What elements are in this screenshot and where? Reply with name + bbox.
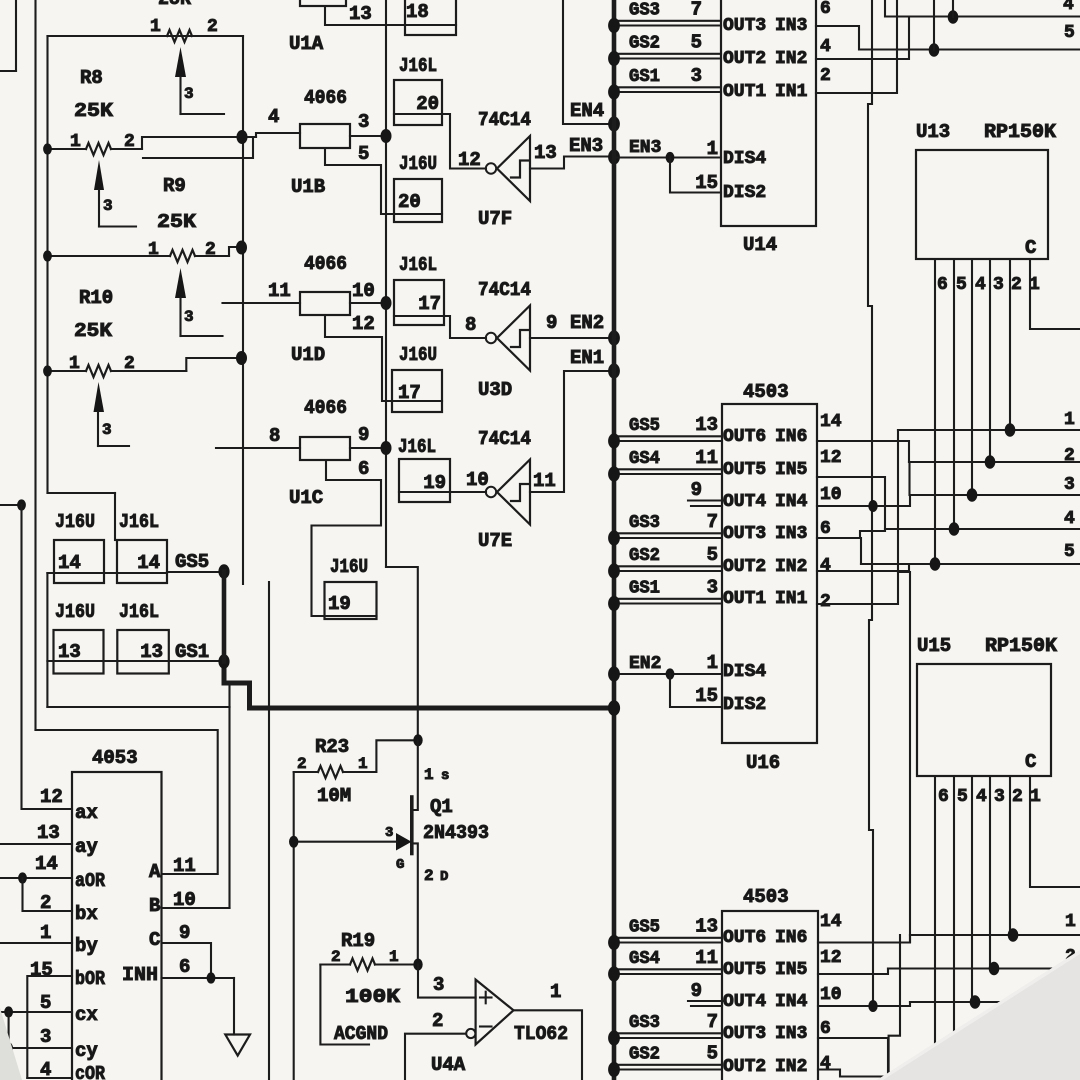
wire J16L19 to U7E input <box>450 491 486 493</box>
jumper J16L 13 <box>104 601 169 674</box>
svg-text:4: 4 <box>1063 0 1074 15</box>
wire 4053 INH <box>162 977 235 979</box>
wire pin9 stub underline bottom <box>688 1000 724 1002</box>
junction R19/drain node <box>413 959 422 971</box>
wire U3D output to EN2 bus <box>530 337 614 339</box>
svg-text:C: C <box>149 929 160 951</box>
svg-text:4: 4 <box>976 787 987 807</box>
potentiometer R8 25K <box>48 67 143 227</box>
wire 4053 aOR <box>0 877 72 879</box>
svg-text:12: 12 <box>820 948 842 968</box>
svg-text:9: 9 <box>691 479 702 501</box>
svg-text:IN2: IN2 <box>775 1057 807 1077</box>
svg-text:9: 9 <box>179 922 190 944</box>
svg-text:6: 6 <box>937 275 948 295</box>
wire EN2 to DIS4 <box>614 673 722 675</box>
svg-text:OUT3: OUT3 <box>723 1024 766 1044</box>
svg-text:1: 1 <box>389 948 399 966</box>
svg-text:13: 13 <box>695 414 718 436</box>
4066 switch U1B <box>291 87 350 198</box>
svg-text:GS5: GS5 <box>629 416 660 436</box>
svg-text:1: 1 <box>40 922 51 944</box>
svg-text:74C14: 74C14 <box>478 428 531 450</box>
junction Q1 source node <box>413 734 422 746</box>
svg-text:C: C <box>1025 237 1036 259</box>
wire 4053 by <box>0 942 72 944</box>
svg-text:DIS2: DIS2 <box>723 695 766 715</box>
wire rail5 mid <box>861 563 1080 565</box>
wire branch to DIS2 <box>670 158 721 193</box>
svg-text:2: 2 <box>424 867 434 885</box>
svg-text:4: 4 <box>1064 509 1075 529</box>
svg-text:EN2: EN2 <box>570 312 604 334</box>
ground symbol <box>225 1035 250 1056</box>
svg-text:OUT5: OUT5 <box>723 960 766 980</box>
junction cy <box>4 1042 13 1053</box>
wire rail1 jog down to bottom group <box>898 572 910 942</box>
svg-text:13: 13 <box>58 641 81 663</box>
wire pin9 stub underline <box>688 499 724 501</box>
svg-text:12: 12 <box>820 448 842 468</box>
junction EN2/DIS2 branch <box>666 668 675 679</box>
wire IN5 bottom <box>818 969 888 975</box>
svg-text:7: 7 <box>691 0 702 21</box>
svg-text:GS2: GS2 <box>629 546 660 566</box>
svg-text:IN4: IN4 <box>775 492 808 512</box>
wire U1C pin9 to bus <box>350 447 386 449</box>
svg-text:12: 12 <box>40 786 63 808</box>
svg-text:6: 6 <box>820 0 831 19</box>
junction EN4 bus <box>608 116 620 131</box>
junction cx <box>4 1006 13 1017</box>
wire into U1C pin8 <box>216 447 300 449</box>
svg-text:J16U: J16U <box>399 344 437 366</box>
svg-text:IN3: IN3 <box>775 16 807 36</box>
svg-text:10: 10 <box>352 280 375 302</box>
junction rail1 bottom <box>1008 928 1019 942</box>
net stub ACGND <box>320 965 388 1046</box>
svg-text:13: 13 <box>349 3 372 25</box>
wire INH to ground <box>233 978 235 1035</box>
svg-text:11: 11 <box>173 855 196 877</box>
svg-text:J16L: J16L <box>398 436 436 458</box>
wire feed up to thick bus <box>228 685 230 707</box>
wire rail3 bottom <box>910 1001 1080 1003</box>
svg-text:U3D: U3D <box>478 379 512 401</box>
svg-text:RP150K: RP150K <box>985 635 1058 657</box>
svg-text:J16U: J16U <box>55 511 95 533</box>
svg-text:4: 4 <box>975 275 986 295</box>
junction EN3/DIS2 branch <box>666 152 675 163</box>
svg-text:B: B <box>149 895 160 917</box>
wire IN3 U14 to rail <box>816 26 1080 50</box>
svg-text:EN1: EN1 <box>570 347 604 369</box>
junction R10 net / right rail <box>236 351 247 365</box>
svg-text:OUT4: OUT4 <box>723 492 766 512</box>
svg-text:7: 7 <box>707 511 718 533</box>
svg-text:14: 14 <box>820 412 842 432</box>
svg-text:13: 13 <box>140 641 163 663</box>
wire rail1-left drop bottom <box>889 935 900 1080</box>
svg-text:GS3: GS3 <box>629 1 660 21</box>
wire U13 pin2 <box>1009 259 1011 430</box>
wire IN3 U16 <box>817 538 861 564</box>
svg-text:4503: 4503 <box>743 886 789 908</box>
wire cx-cy link <box>8 1012 10 1048</box>
wire R9 pin2 step to rail <box>229 247 243 256</box>
svg-text:EN4: EN4 <box>570 100 604 122</box>
svg-text:1: 1 <box>1030 787 1041 807</box>
junction INH <box>207 972 216 983</box>
wire into U1D pin11 <box>223 302 301 304</box>
svg-text:1: 1 <box>1064 410 1075 430</box>
svg-text:10: 10 <box>820 485 842 505</box>
op-amp U4A TL062 <box>431 980 568 1076</box>
svg-text:TLO62: TLO62 <box>514 1023 568 1045</box>
wire 4053 ay <box>0 843 72 845</box>
heavy bus vertical net <box>612 0 617 1080</box>
svg-text:4066: 4066 <box>304 397 347 419</box>
svg-text:3: 3 <box>184 85 194 103</box>
wire 4053 cx <box>0 1011 72 1013</box>
svg-text:4: 4 <box>820 556 831 576</box>
svg-text:GS4: GS4 <box>629 949 660 969</box>
svg-text:IN1: IN1 <box>775 82 808 102</box>
wire 4066 bus jog to Q1 <box>386 567 418 740</box>
wire 4053 B to bus <box>162 907 230 909</box>
wire U13 pin1 to right edge <box>1030 259 1080 329</box>
wire IN2 U16 <box>817 564 909 571</box>
jumper J16L 19 <box>398 436 450 502</box>
svg-text:3: 3 <box>994 787 1005 807</box>
svg-text:4: 4 <box>40 1059 51 1080</box>
svg-text:U1D: U1D <box>291 344 325 366</box>
svg-text:2: 2 <box>297 755 307 773</box>
svg-text:6: 6 <box>938 787 949 807</box>
svg-text:10M: 10M <box>317 785 351 807</box>
wire branch to DIS2 U16 <box>670 674 722 707</box>
svg-text:GS3: GS3 <box>629 1013 660 1033</box>
svg-text:25K: 25K <box>74 100 114 122</box>
svg-text:U1C: U1C <box>289 487 323 509</box>
junction U1C pin9 bus <box>381 441 392 455</box>
wire IN6 U16 <box>817 441 909 462</box>
svg-text:9: 9 <box>546 312 557 334</box>
svg-text:4: 4 <box>268 106 279 128</box>
junction rail3 mid <box>967 488 978 502</box>
wire x36 to 4053 pin A route <box>36 730 218 874</box>
svg-text:GS3: GS3 <box>629 513 660 533</box>
svg-text:EN2: EN2 <box>629 654 661 674</box>
svg-text:G: G <box>396 857 404 873</box>
4066 switch U1D <box>291 253 350 366</box>
svg-text:9: 9 <box>691 980 702 1002</box>
wire R8 row parallel stub <box>143 137 253 158</box>
wire lower feed horizontal <box>47 706 229 708</box>
svg-text:EN3: EN3 <box>629 138 661 158</box>
corner shadow bottom-left <box>0 1008 22 1080</box>
svg-text:3: 3 <box>102 421 112 439</box>
svg-text:3: 3 <box>40 1026 51 1048</box>
svg-text:U7E: U7E <box>478 530 512 552</box>
wire top-left corner stub <box>15 0 17 71</box>
svg-text:ACGND: ACGND <box>334 1023 388 1045</box>
svg-text:3: 3 <box>385 825 393 841</box>
junction rail4-top <box>948 10 959 24</box>
svg-text:1: 1 <box>707 652 718 674</box>
wire IN6 bottom <box>818 935 910 943</box>
wire U1B pin3 to bus <box>350 135 386 137</box>
junction R9 net / right rail <box>236 241 247 255</box>
wire U15 pin4 <box>971 776 973 1002</box>
junction U1B pin3 bus <box>381 129 392 143</box>
svg-text:D: D <box>440 869 448 885</box>
svg-text:2: 2 <box>1011 275 1022 295</box>
junction U1D pin10 bus <box>381 296 392 310</box>
svg-text:U1A: U1A <box>289 33 324 55</box>
svg-text:IN6: IN6 <box>775 928 807 948</box>
jumper J16U 14 <box>47 511 104 583</box>
wire rail1 mid <box>898 429 1080 431</box>
4066 switch U1A (clipped) <box>289 0 346 55</box>
svg-text:5: 5 <box>40 992 51 1014</box>
potentiometer R9 25K <box>48 175 230 336</box>
svg-text:U4A: U4A <box>431 1054 466 1076</box>
svg-text:25K: 25K <box>157 211 197 233</box>
svg-text:1: 1 <box>550 981 561 1003</box>
svg-text:14: 14 <box>820 912 842 932</box>
svg-text:5: 5 <box>1064 542 1075 562</box>
heavy bus horizontal net <box>224 662 614 708</box>
svg-text:INH: INH <box>122 964 158 986</box>
svg-text:GS2: GS2 <box>629 1045 660 1065</box>
svg-text:GS1: GS1 <box>175 641 209 663</box>
svg-text:OUT5: OUT5 <box>723 460 766 480</box>
svg-text:IN3: IN3 <box>775 524 807 544</box>
svg-text:IN5: IN5 <box>775 960 807 980</box>
svg-text:U15: U15 <box>917 635 951 657</box>
svg-text:U13: U13 <box>916 121 950 143</box>
resistor pack U13 RP150K <box>916 121 1057 259</box>
wire mesh link v909 <box>908 462 910 495</box>
jumper J16L 17 <box>394 254 444 325</box>
wire -input <box>405 1034 466 1080</box>
wire U7E output to EN1 bus <box>530 371 614 492</box>
junction EN2 bus <box>608 330 620 345</box>
junction R10 pin1 / left rail <box>43 365 52 376</box>
wire U15 pin2 <box>1009 776 1011 935</box>
junction GS1 <box>218 654 229 668</box>
svg-text:5: 5 <box>956 275 967 295</box>
svg-text:19: 19 <box>423 472 446 494</box>
wire U13 pin6 <box>934 259 936 564</box>
svg-text:U14: U14 <box>743 234 777 256</box>
jumper J16L 14 <box>104 511 167 583</box>
junction heavy bus corner <box>608 700 620 716</box>
potentiometer R10 25K <box>48 287 187 446</box>
svg-text:OUT1: OUT1 <box>723 589 766 609</box>
wire left rail of potentiometer loop <box>46 36 48 493</box>
junction R8 net / right rail <box>237 130 248 144</box>
wire IN4 U16 <box>817 495 910 506</box>
svg-text:20: 20 <box>398 191 421 213</box>
4066 switch U1C <box>289 397 350 509</box>
svg-text:5: 5 <box>707 544 718 566</box>
svg-text:14: 14 <box>58 552 81 574</box>
svg-text:OUT2: OUT2 <box>723 1057 766 1077</box>
wire left edge to node <box>0 504 22 506</box>
wire EN3 to DIS4 <box>614 156 721 158</box>
wire U15 pin5 <box>953 776 955 1080</box>
svg-text:GS1: GS1 <box>629 67 660 87</box>
svg-text:3: 3 <box>691 65 702 87</box>
svg-text:3: 3 <box>1064 475 1075 495</box>
wire IN4 bottom <box>818 1002 910 1006</box>
svg-text:ay: ay <box>75 836 98 858</box>
junction GS5 <box>218 564 229 578</box>
wire IN2 U14 jog up <box>816 17 909 60</box>
svg-text:11: 11 <box>695 947 718 969</box>
svg-text:5: 5 <box>1064 23 1075 43</box>
svg-text:DIS4: DIS4 <box>723 662 766 682</box>
wire rail2 mid <box>909 461 1080 463</box>
svg-text:DIS2: DIS2 <box>723 183 766 203</box>
svg-text:25K: 25K <box>74 320 113 342</box>
junction rail1 mid <box>1005 423 1016 437</box>
svg-text:J16L: J16L <box>399 254 437 276</box>
inverter U3D 74C14 <box>478 279 531 401</box>
svg-text:12: 12 <box>352 313 375 335</box>
svg-text:13: 13 <box>534 142 557 164</box>
svg-text:J16L: J16L <box>119 511 159 533</box>
svg-text:DIS4: DIS4 <box>723 149 766 169</box>
svg-text:15: 15 <box>695 685 718 707</box>
svg-text:3: 3 <box>184 308 194 326</box>
wire aOR branch to bx <box>23 878 73 911</box>
wire dangling rail end <box>268 582 270 1080</box>
svg-text:14: 14 <box>137 552 160 574</box>
svg-text:J16U: J16U <box>330 556 368 578</box>
wire J16L20 to U7F input <box>442 114 486 169</box>
svg-text:GS2: GS2 <box>629 34 660 54</box>
wire rail1 bottom <box>910 934 1080 936</box>
resistor R23 10M <box>294 736 418 807</box>
svg-text:OUT6: OUT6 <box>723 427 766 447</box>
svg-text:IN2: IN2 <box>775 557 807 577</box>
svg-text:R8: R8 <box>80 67 103 89</box>
svg-text:OUT1: OUT1 <box>723 82 766 102</box>
wire 4053 cy <box>0 1047 72 1049</box>
junction R8 pin1 / left rail <box>43 143 52 154</box>
wire U1D pin12 to J16U 17 <box>325 315 392 401</box>
svg-text:14: 14 <box>35 853 58 875</box>
wire U13 pin5 <box>953 259 955 529</box>
wire U1B pin5 to J16U 20 <box>325 148 394 214</box>
wire top of potentiometer loop <box>48 35 244 37</box>
IC U14 4503 buffer (clipped top) <box>721 0 816 256</box>
wire long vertical x36 <box>34 0 36 730</box>
wire pin9 stub bottom <box>691 1005 722 1007</box>
svg-text:4: 4 <box>820 1054 831 1074</box>
wire IN1 U14 <box>816 0 897 93</box>
svg-text:R23: R23 <box>315 736 349 758</box>
svg-text:2: 2 <box>820 66 831 86</box>
svg-text:J16U: J16U <box>55 601 95 623</box>
svg-text:ax: ax <box>75 802 98 824</box>
svg-text:R9: R9 <box>163 175 186 197</box>
wire J16U left drop <box>46 573 48 707</box>
svg-text:74C14: 74C14 <box>478 279 531 301</box>
svg-text:U16: U16 <box>746 752 780 774</box>
svg-text:3: 3 <box>103 197 113 215</box>
junction IN4 bottom bus-tap <box>868 1000 877 1012</box>
svg-text:25K: 25K <box>158 0 192 10</box>
resistor R19 100K <box>320 930 418 1008</box>
svg-text:R19: R19 <box>341 930 375 952</box>
wire loop bottom drop to J16L14 box <box>114 493 116 540</box>
wire IN5 U16 <box>817 477 885 529</box>
wire U13 pin4 <box>971 259 973 495</box>
wire vertical from top to rail5-top <box>933 0 935 50</box>
wire U4A output <box>514 1010 583 1080</box>
wire J16L17 to U3D input <box>444 316 486 338</box>
wire U13 pin3 <box>989 259 991 462</box>
svg-text:J16U: J16U <box>399 153 437 175</box>
svg-text:13: 13 <box>695 916 718 938</box>
junction rail2 bottom <box>989 962 1000 976</box>
IC 4053 mux <box>72 772 162 1080</box>
wire drain node to +input <box>418 965 476 998</box>
svg-text:6: 6 <box>358 458 369 480</box>
svg-text:U1B: U1B <box>291 176 325 198</box>
svg-text:8: 8 <box>465 314 476 336</box>
svg-text:13: 13 <box>37 822 60 844</box>
svg-text:5: 5 <box>358 143 369 165</box>
wire rail2 bottom <box>888 967 1080 969</box>
wire R23 feed vertical <box>293 772 295 1080</box>
svg-text:5: 5 <box>691 32 702 54</box>
junction rail4 mid <box>949 522 960 536</box>
wire U1A pin13 to J16 box 18 <box>325 6 456 25</box>
wire GS1 to junction <box>169 660 224 662</box>
svg-text:15: 15 <box>695 172 718 194</box>
svg-text:2: 2 <box>1012 787 1023 807</box>
junction EN3 bus <box>608 149 620 164</box>
svg-text:2: 2 <box>820 592 831 612</box>
svg-text:1: 1 <box>1065 912 1076 932</box>
wire rail3 mid <box>910 494 1080 496</box>
svg-text:aOR: aOR <box>75 870 106 892</box>
svg-text:RP150K: RP150K <box>984 121 1057 143</box>
svg-text:3: 3 <box>993 275 1004 295</box>
wire U1C pin6 to J16U 19 <box>312 460 382 616</box>
junction aOR branch <box>18 872 27 883</box>
svg-text:EN3: EN3 <box>569 135 603 157</box>
IC U16 4503 buffer <box>722 404 817 774</box>
wire GS5 to junction <box>167 571 224 573</box>
wire U7F output to EN3 bus <box>530 157 614 169</box>
jumper J16 18 box (clipped) <box>405 0 456 35</box>
jumper J16U 20 <box>394 153 442 222</box>
svg-text:5: 5 <box>707 1043 718 1065</box>
svg-text:OUT4: OUT4 <box>723 992 766 1012</box>
svg-text:1: 1 <box>424 766 434 784</box>
svg-text:3: 3 <box>358 111 369 133</box>
svg-text:U7F: U7F <box>478 208 512 230</box>
page curl corner <box>877 950 1080 1080</box>
svg-text:4066: 4066 <box>304 253 347 275</box>
svg-text:OUT2: OUT2 <box>723 49 766 69</box>
